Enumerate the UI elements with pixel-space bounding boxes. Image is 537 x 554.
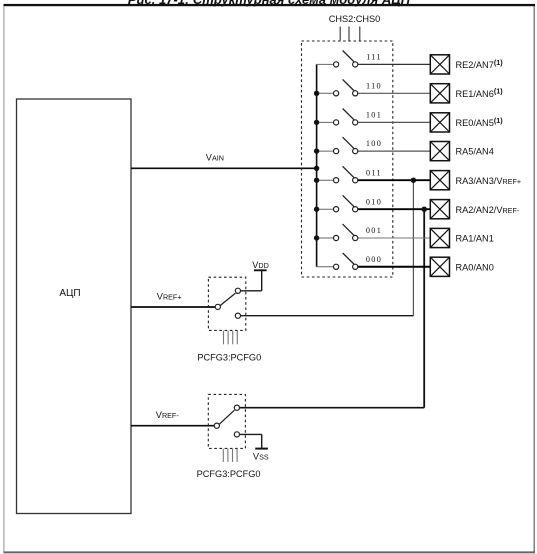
svg-text:100: 100 bbox=[366, 139, 382, 148]
svg-text:111: 111 bbox=[366, 53, 382, 62]
svg-text:PCFG3:PCFG0: PCFG3:PCFG0 bbox=[197, 469, 261, 479]
svg-text:АЦП: АЦП bbox=[59, 288, 80, 299]
svg-text:RA1/AN1: RA1/AN1 bbox=[456, 234, 494, 244]
svg-text:VAIN: VAIN bbox=[206, 152, 224, 162]
svg-text:001: 001 bbox=[366, 226, 382, 235]
svg-text:RA5/AN4: RA5/AN4 bbox=[456, 147, 494, 157]
svg-text:PCFG3:PCFG0: PCFG3:PCFG0 bbox=[197, 352, 261, 362]
svg-text:000: 000 bbox=[366, 255, 382, 264]
svg-text:RA2/AN2/VREF-: RA2/AN2/VREF- bbox=[456, 205, 520, 215]
svg-text:RA3/AN3/VREF+: RA3/AN3/VREF+ bbox=[456, 176, 522, 186]
svg-text:VSS: VSS bbox=[253, 451, 269, 461]
svg-text:011: 011 bbox=[366, 168, 382, 177]
svg-text:VREF+: VREF+ bbox=[157, 292, 182, 302]
svg-text:RE0/AN5(1): RE0/AN5(1) bbox=[456, 116, 504, 128]
svg-text:101: 101 bbox=[366, 111, 382, 120]
svg-text:CHS2:CHS0: CHS2:CHS0 bbox=[329, 14, 381, 24]
svg-text:010: 010 bbox=[366, 197, 382, 206]
svg-text:VREF-: VREF- bbox=[156, 410, 180, 420]
svg-text:RE1/AN6(1): RE1/AN6(1) bbox=[456, 87, 504, 99]
svg-text:VDD: VDD bbox=[252, 260, 269, 270]
svg-text:RA0/AN0: RA0/AN0 bbox=[456, 262, 494, 272]
svg-text:110: 110 bbox=[366, 81, 382, 90]
svg-text:RE2/AN7(1): RE2/AN7(1) bbox=[456, 58, 504, 70]
